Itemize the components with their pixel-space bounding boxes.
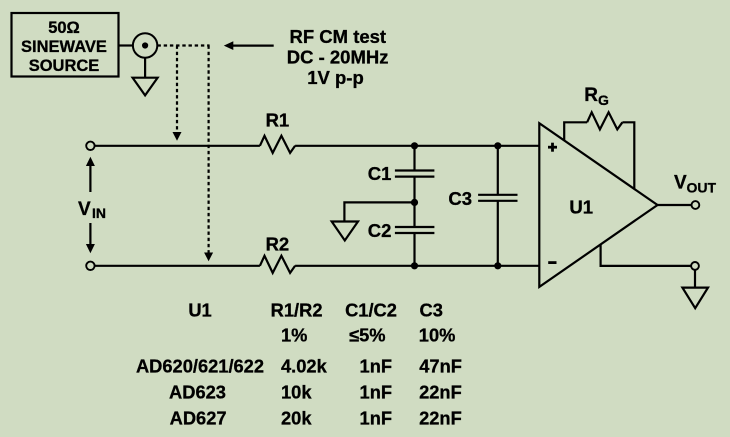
table row AD623: [169, 382, 462, 403]
wire connector to ground: [144, 58, 146, 78]
svg-text:U1: U1: [188, 300, 211, 321]
capacitor C3: [448, 146, 517, 266]
RF CM test label: [287, 26, 389, 88]
svg-text:IN: IN: [92, 205, 106, 221]
reference terminal: [691, 262, 699, 270]
svg-text:4.02k: 4.02k: [281, 356, 328, 377]
svg-text:AD620/621/622: AD620/621/622: [136, 356, 264, 377]
node: top C3 branch: [494, 142, 501, 149]
svg-text:1nF: 1nF: [360, 407, 393, 428]
svg-text:DC - 20MHz: DC - 20MHz: [287, 47, 389, 68]
Rg label: [584, 85, 609, 108]
ground (source): [133, 78, 158, 96]
Vin label: [78, 199, 106, 221]
svg-text:R: R: [584, 85, 598, 106]
node: C1-C2 midpoint: [411, 199, 418, 206]
svg-text:20k: 20k: [281, 407, 312, 428]
wire op-amp output: [658, 204, 692, 206]
input terminal + (top left): [86, 142, 94, 150]
svg-text:V: V: [78, 199, 91, 220]
svg-text:G: G: [598, 92, 609, 108]
svg-text:RF CM test: RF CM test: [289, 26, 386, 47]
table tolerance row: [281, 325, 455, 346]
svg-text:U1: U1: [569, 197, 593, 218]
svg-text:OUT: OUT: [687, 180, 717, 196]
ground (C1-C2 midpoint): [332, 222, 358, 241]
wire top: terminal to R1: [95, 145, 260, 147]
plus input marking: [548, 143, 557, 152]
Vin arrow (double headed): [86, 157, 95, 253]
coax connector: [133, 33, 157, 57]
svg-text:R1: R1: [266, 110, 290, 131]
wire bottom: R2 to op-amp: [295, 265, 539, 267]
node: bottom C3 branch: [494, 262, 501, 269]
minus input marking: [548, 261, 556, 264]
node: bottom C2 branch: [411, 262, 418, 269]
svg-text:50Ω: 50Ω: [48, 19, 80, 37]
svg-text:C2: C2: [368, 220, 392, 241]
svg-text:R2: R2: [266, 234, 290, 255]
svg-text:10k: 10k: [281, 382, 312, 403]
dashed wire horizontal from connector: [158, 44, 210, 46]
svg-text:SINEWAVE: SINEWAVE: [21, 38, 107, 56]
ground (output reference): [682, 288, 708, 309]
wire source box to connector: [118, 44, 133, 46]
svg-text:AD623: AD623: [169, 382, 226, 403]
annotation arrow (RF CM test): [224, 41, 274, 50]
output terminal Vout: [692, 201, 700, 209]
dashed arrow to bottom wire: [204, 46, 213, 262]
resistor R1: [260, 110, 295, 153]
svg-text:C3: C3: [448, 188, 472, 209]
svg-text:C1/C2: C1/C2: [345, 300, 397, 321]
svg-text:≤5%: ≤5%: [349, 325, 385, 346]
svg-text:1nF: 1nF: [360, 382, 393, 403]
wire top: R1 to op-amp: [295, 145, 539, 147]
wire terminal to output ground: [694, 270, 696, 288]
input terminal - (bottom left): [86, 262, 94, 270]
svg-text:AD627: AD627: [170, 407, 227, 428]
svg-text:V: V: [674, 173, 687, 194]
Vout label: [674, 173, 717, 196]
resistor R2: [260, 234, 295, 273]
capacitor C2: [368, 202, 435, 265]
svg-text:1nF: 1nF: [360, 356, 393, 377]
50 ohm sinewave source box: [12, 13, 119, 77]
capacitor C1: [368, 146, 435, 203]
svg-text:C1: C1: [368, 163, 392, 184]
svg-text:22nF: 22nF: [419, 382, 462, 403]
op-amp U1: [539, 123, 657, 287]
Rg gain resistor loop: [564, 112, 634, 189]
svg-text:1%: 1%: [281, 325, 307, 346]
svg-text:22nF: 22nF: [419, 407, 462, 428]
wire midpoint to ground: [344, 202, 414, 221]
wire reference/sense to ground terminal: [601, 245, 691, 266]
node: top C1 branch: [411, 142, 418, 149]
dashed arrow to top wire: [173, 46, 182, 141]
svg-text:C3: C3: [420, 300, 443, 321]
table row AD620/621/622: [136, 356, 462, 377]
svg-text:SOURCE: SOURCE: [29, 57, 100, 75]
svg-text:47nF: 47nF: [419, 356, 462, 377]
svg-text:R1/R2: R1/R2: [271, 300, 323, 321]
table header row: [188, 300, 443, 321]
svg-text:1V p-p: 1V p-p: [307, 67, 364, 88]
svg-text:10%: 10%: [419, 325, 456, 346]
wire bottom: terminal to R2: [95, 265, 260, 267]
table row AD627: [170, 407, 462, 428]
